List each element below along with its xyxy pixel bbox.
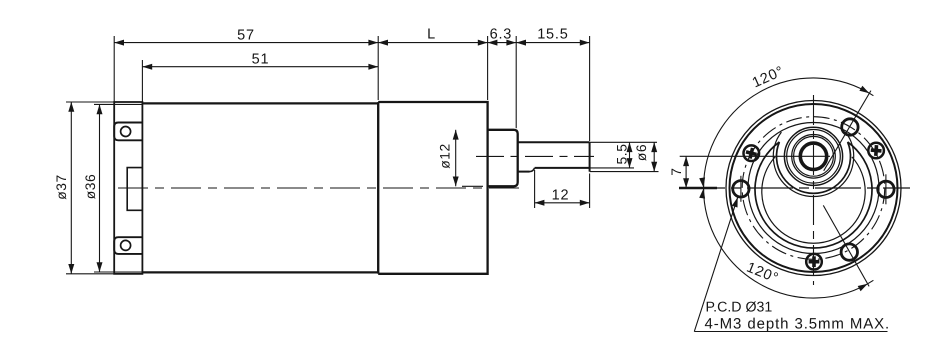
svg-text:ø6: ø6 — [634, 144, 649, 161]
svg-text:15.5: 15.5 — [537, 27, 568, 43]
svg-text:4-M3 depth 3.5mm MAX.: 4-M3 depth 3.5mm MAX. — [705, 316, 891, 333]
svg-text:L: L — [427, 27, 436, 43]
svg-text:ø37: ø37 — [54, 174, 69, 200]
svg-text:12: 12 — [552, 188, 570, 204]
svg-text:ø12: ø12 — [438, 143, 453, 169]
svg-text:57: 57 — [237, 28, 255, 44]
svg-text:P.C.D Ø31: P.C.D Ø31 — [706, 300, 773, 316]
svg-text:6.3: 6.3 — [490, 27, 513, 43]
svg-text:ø36: ø36 — [83, 174, 98, 200]
svg-text:5.5: 5.5 — [615, 144, 630, 165]
svg-text:51: 51 — [252, 52, 270, 68]
svg-text:7: 7 — [669, 167, 684, 175]
